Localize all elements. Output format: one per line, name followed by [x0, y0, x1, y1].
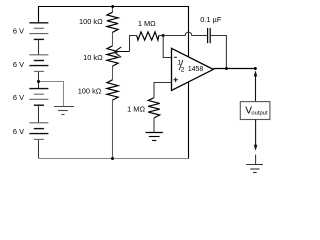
svg-text:output: output: [251, 110, 268, 116]
wire op-amp V- riser: [188, 82, 190, 158]
wire battery tap to ground: [39, 82, 64, 107]
potentiometer 10 kOhm body: [107, 46, 118, 66]
Voutput box: [240, 102, 270, 120]
wire R4 to ground: [153, 118, 155, 133]
svg-text:6 V: 6 V: [13, 26, 24, 35]
battery B4 6V: [29, 123, 48, 140]
battery B3 6V: [29, 89, 48, 106]
node output end: [254, 67, 257, 70]
svg-text:0.1 µF: 0.1 µF: [200, 15, 222, 24]
resistor R1 100 kOhm: [107, 12, 118, 32]
svg-text:10 kΩ: 10 kΩ: [83, 53, 103, 62]
battery B2 6V: [29, 55, 48, 72]
ground Voutput: [255, 155, 257, 165]
wire top rail from battery top to op-amp V+ riser: [39, 7, 189, 57]
svg-text:100 kΩ: 100 kΩ: [78, 86, 102, 95]
node battery tap: [37, 80, 40, 83]
svg-text:100 kΩ: 100 kΩ: [79, 17, 103, 26]
node inverting input: [162, 34, 165, 37]
wire op-amp output: [213, 68, 255, 70]
ground R4: [146, 133, 163, 141]
op-amp U1 1/2 1458: [172, 48, 214, 90]
svg-text:6 V: 6 V: [13, 60, 24, 69]
capacitor C1 0.1 uF: [208, 28, 211, 43]
svg-text:1458: 1458: [188, 66, 203, 73]
resistor R4 1 MOhm vertical: [148, 98, 160, 118]
svg-text:2: 2: [181, 66, 185, 73]
node top rail / chain: [111, 5, 114, 8]
resistor R3 100 kOhm: [107, 80, 118, 100]
battery B1 6V: [29, 23, 48, 40]
svg-text:1 MΩ: 1 MΩ: [127, 104, 145, 113]
potentiometer wiper arrow: [114, 47, 129, 57]
node feedback / output: [225, 67, 228, 70]
wire Voutput to ground arrow: [255, 120, 257, 146]
wire battery interconnects: [38, 39, 40, 158]
resistor R2 1 MOhm horizontal: [137, 32, 159, 40]
wire R2 to node: [159, 35, 163, 37]
svg-text:6 V: 6 V: [13, 127, 24, 136]
wire non-inverting input to R4: [154, 83, 172, 98]
wire feedback with hop over V+ riser: [163, 32, 207, 35]
svg-text:6 V: 6 V: [13, 93, 24, 102]
wire Voutput probe up arrow: [255, 76, 257, 102]
svg-text:1 MΩ: 1 MΩ: [138, 19, 156, 28]
node chain / bottom rail: [111, 157, 114, 160]
wire divider chain stubs: [112, 7, 114, 159]
ground battery tap: [54, 107, 74, 115]
op-amp minus sign: [174, 56, 177, 58]
wire wiper to R2: [130, 36, 137, 52]
wire bottom rail: [39, 158, 189, 160]
wire capacitor to output node: [210, 36, 226, 69]
wire node down to inverting input: [163, 36, 171, 58]
op-amp plus sign: [173, 78, 178, 83]
